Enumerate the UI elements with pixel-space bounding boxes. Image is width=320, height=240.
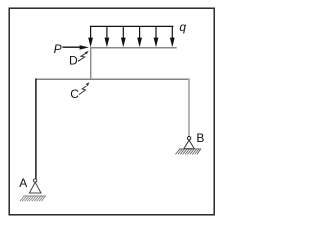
support A hatching (20, 196, 46, 201)
support B ground line (179, 148, 201, 150)
support A triangle (29, 182, 41, 193)
beam CE (middle horizontal member) (35, 78, 190, 80)
support A pin circle (33, 179, 36, 182)
svg-text:A: A (19, 176, 27, 190)
load arrow 3 (121, 26, 126, 47)
support A ground line (24, 195, 46, 197)
support B triangle (184, 140, 194, 148)
support B hatching (175, 149, 201, 155)
support B pin circle (187, 137, 190, 140)
svg-text:P: P (54, 42, 62, 56)
column A (left vertical member) (35, 79, 37, 179)
leader D (78, 51, 89, 61)
load arrow 5 (154, 26, 159, 47)
load arrow 1 (88, 26, 93, 47)
column B (right vertical member) (188, 79, 190, 137)
load arrow 2 (105, 26, 110, 47)
distributed load q top line (90, 25, 174, 27)
svg-text:q: q (179, 20, 186, 34)
leader C (79, 82, 89, 95)
border frame (9, 8, 214, 215)
svg-text:D: D (69, 54, 78, 68)
member CD (short vertical member) (90, 48, 92, 79)
svg-text:C: C (70, 87, 79, 101)
force P arrow (63, 45, 90, 49)
load arrow 6 (170, 26, 175, 47)
top beam (loaded horizontal member) (90, 47, 177, 49)
svg-text:B: B (196, 131, 204, 145)
load arrow 4 (137, 26, 142, 47)
